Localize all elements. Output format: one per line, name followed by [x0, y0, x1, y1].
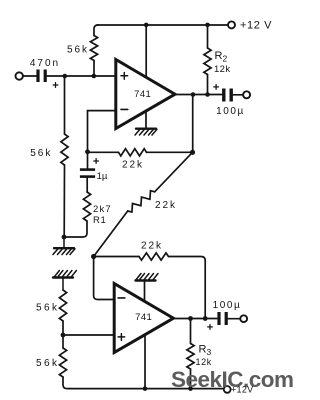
- svg-text:741: 741: [134, 89, 151, 100]
- +12V terminal bottom: [224, 386, 231, 393]
- plus sign 470n: [53, 83, 58, 88]
- wire: +12V top rail: [97, 24, 228, 26]
- svg-text:22k: 22k: [155, 200, 177, 211]
- wire: U1 - input: [88, 111, 117, 152]
- svg-text:100µ: 100µ: [213, 300, 242, 311]
- ground (flipped, 56k bias): [53, 271, 76, 291]
- svg-text:470n: 470n: [30, 58, 60, 69]
- capacitor 100u bottom: [217, 312, 220, 325]
- wire: node to U2 + input: [63, 334, 115, 336]
- output terminal bottom: [240, 315, 247, 322]
- svg-text:12k: 12k: [214, 64, 231, 75]
- svg-text:2k7: 2k7: [93, 204, 112, 215]
- diagonal wire with 22k resistor: [94, 211, 128, 257]
- input terminal: [16, 72, 23, 79]
- wire: U2 output: [172, 318, 218, 320]
- node: rail / U2 V pin: [143, 386, 148, 391]
- svg-text:56k: 56k: [30, 148, 52, 159]
- node: ground junction: [62, 235, 67, 240]
- svg-text:56k: 56k: [36, 302, 59, 313]
- resistor 56k (U2 bias upper): [59, 290, 66, 321]
- U1 - symbol: [121, 108, 128, 110]
- node: output/feedback: [191, 92, 196, 97]
- wire: U1 V- pin to ground: [145, 108, 147, 129]
- output terminal top: [243, 91, 250, 98]
- svg-text:741: 741: [135, 312, 152, 323]
- node: rail / U1 V+: [144, 23, 149, 28]
- wire: U2 supply pin: [144, 332, 146, 389]
- wire: U1 output: [173, 94, 222, 96]
- resistor 56k (U2 bias lower): [62, 335, 64, 348]
- U2 + symbol: [118, 334, 125, 341]
- svg-text:+12V: +12V: [231, 385, 253, 395]
- wire: cap to output terminal top: [233, 94, 243, 96]
- resistor 22k diagonal: [128, 191, 155, 212]
- wire: input to 470n cap: [23, 75, 37, 77]
- node: U2 + input: [61, 333, 66, 338]
- resistor R2 12k: [207, 25, 209, 48]
- node: output/R3: [188, 316, 193, 321]
- ground U1: [135, 129, 157, 135]
- plus sign 100u top: [214, 85, 219, 90]
- node: output/R2: [205, 92, 210, 97]
- svg-text:+12 V: +12 V: [240, 20, 272, 32]
- ground U2 (flipped): [136, 274, 159, 281]
- op-amp U2: [114, 284, 173, 353]
- node A: [63, 74, 68, 79]
- node: rail / R2: [205, 23, 210, 28]
- svg-text:12k: 12k: [196, 357, 212, 367]
- U2 - symbol: [118, 297, 125, 299]
- ground (56k/R1): [53, 237, 75, 255]
- svg-text:1µ: 1µ: [97, 171, 108, 182]
- capacitor 100u top: [222, 89, 225, 102]
- capacitor 470n: [36, 70, 39, 83]
- op-amp U1: [116, 60, 175, 129]
- plus sign 100u bottom: [208, 325, 213, 330]
- +12V terminal top: [228, 21, 235, 28]
- node: rail / R3: [188, 386, 193, 391]
- wire: cap to output terminal bottom: [228, 318, 240, 320]
- node B: [92, 74, 97, 79]
- wire: +12V bottom rail: [69, 388, 224, 390]
- svg-text:22k: 22k: [141, 241, 163, 252]
- resistor 22k (U1 feedback): [88, 151, 119, 153]
- node: 22k / diagonal junction: [190, 150, 195, 155]
- svg-text:56k: 56k: [67, 45, 89, 56]
- resistor 22k (U2 input): [94, 256, 139, 258]
- resistor R1 2k7: [86, 178, 88, 192]
- svg-text:100µ: 100µ: [216, 106, 245, 117]
- svg-text:R3: R3: [199, 344, 212, 358]
- node: output/feedback: [203, 316, 208, 321]
- wire: node to U2 - input: [94, 257, 115, 300]
- resistor R3 12k: [190, 319, 192, 344]
- svg-text:R1: R1: [93, 215, 106, 226]
- resistor 56k left: [64, 76, 66, 134]
- wire: cap to op-amp U1 + input: [47, 75, 117, 77]
- svg-text:22k: 22k: [122, 159, 144, 170]
- node: lower mid junction: [91, 254, 96, 259]
- svg-text:R2: R2: [215, 50, 228, 64]
- resistor 56k top (feedback to +12V rail): [94, 25, 98, 36]
- wire: feedback node down: [192, 95, 194, 153]
- svg-text:56k: 56k: [36, 358, 59, 369]
- node: 22k / 1u junction: [85, 149, 90, 154]
- wire: U1 V+ pin: [145, 25, 147, 78]
- U1 + symbol: [121, 73, 128, 80]
- plus sign 1u: [94, 159, 99, 164]
- wire: U2 ground pin: [144, 281, 146, 303]
- capacitor 1u: [87, 152, 89, 168]
